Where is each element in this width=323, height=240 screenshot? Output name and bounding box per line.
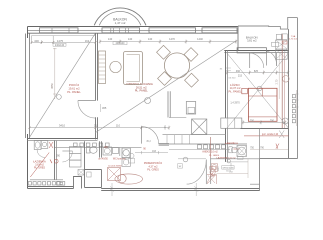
living-corridor door leaf <box>141 127 143 144</box>
svg-text:1475: 1475 <box>57 39 64 43</box>
dim line bedroom bottom <box>243 121 285 123</box>
red line below bedroom <box>244 135 289 137</box>
bedroom north wall double <box>224 50 288 52</box>
hatched box near vestibule <box>78 170 84 176</box>
svg-text:365: 365 <box>102 106 107 110</box>
shaft fixtures stack <box>276 34 281 39</box>
svg-text:1103: 1103 <box>218 166 220 171</box>
washer stack <box>70 147 82 154</box>
window box center under arc <box>102 28 140 33</box>
pokoj diagonal <box>30 34 95 137</box>
left wall window band outer <box>25 34 27 139</box>
top-right balcony stepped outline <box>238 17 297 29</box>
svg-text:3,81 m2: 3,81 m2 <box>247 39 257 43</box>
corner arc fixture <box>37 150 45 158</box>
balcony door leaf A <box>249 53 251 68</box>
small round table <box>110 61 121 72</box>
window box right <box>149 28 196 33</box>
bedroom badge <box>257 86 262 91</box>
dryer box below <box>122 158 130 166</box>
kitchen top line <box>169 117 186 119</box>
left wall window band inner <box>29 34 31 139</box>
corridor inner line <box>178 159 248 167</box>
svg-text:140: 140 <box>108 37 113 41</box>
utility dim line <box>227 72 288 74</box>
bathroom2 shower <box>237 146 247 157</box>
toilet wc <box>86 147 90 153</box>
balcony arc top center outer <box>94 8 146 25</box>
chair NE <box>184 48 198 62</box>
bathroom inner bottom line <box>30 179 63 181</box>
living-corridor door arc <box>142 127 159 144</box>
bed double <box>248 88 277 121</box>
chair NW <box>157 45 171 59</box>
svg-text:PŁ. GRES: PŁ. GRES <box>147 169 159 172</box>
kitchen wall line <box>159 143 247 145</box>
right inner wall x288.6 <box>288 29 290 158</box>
bathroom2 north wall stub <box>211 158 260 160</box>
right squares column <box>292 95 295 123</box>
svg-text:825: 825 <box>254 70 259 73</box>
wc room walls <box>84 141 86 169</box>
red arrow mark <box>279 130 284 138</box>
svg-text:PŁ. PANEL: PŁ. PANEL <box>67 90 81 94</box>
corridor badge <box>183 157 188 162</box>
svg-text:45,2: 45,2 <box>146 141 151 143</box>
top wall outer line <box>28 26 239 28</box>
svg-text:3650: 3650 <box>51 83 54 89</box>
svg-text:um 40/50: um 40/50 <box>98 159 108 161</box>
svg-text:790: 790 <box>270 119 275 122</box>
svg-text:ŁAZIENKA 4,15 m2: ŁAZIENKA 4,15 m2 <box>217 156 237 159</box>
bathroom2 toilet lower <box>210 167 216 170</box>
svg-text:7,5A: 7,5A <box>291 35 296 38</box>
left outer wall bottom segment <box>27 134 29 189</box>
dim tick slashes <box>28 40 289 128</box>
bathroom2 dim <box>217 159 249 178</box>
right wall circle 2 <box>282 118 288 124</box>
red marks <box>49 142 53 148</box>
wall living/bedroom x226 <box>225 51 227 162</box>
pokoj right wall lower <box>96 117 98 139</box>
bathroom red diagonal <box>30 153 49 178</box>
svg-text:215: 215 <box>238 74 243 77</box>
bottom wall main <box>101 189 260 191</box>
corridor dim line <box>135 151 168 154</box>
bathroom radiator squares <box>28 182 60 185</box>
svg-text:1,47 m2: 1,47 m2 <box>115 21 126 25</box>
right outer wall <box>297 18 299 159</box>
dim marks right edge <box>296 94 299 107</box>
svg-text:2,70: 2,70 <box>276 79 279 84</box>
balcony door arc B <box>266 51 276 65</box>
svg-text:3410: 3410 <box>59 124 66 128</box>
corridor top line <box>55 147 142 149</box>
svg-text:brodzik 90/90: brodzik 90/90 <box>225 142 239 145</box>
svg-text:400: 400 <box>34 39 39 43</box>
kitchen squares row <box>198 145 226 149</box>
entry door arc <box>187 160 207 185</box>
dim 365 near pokoj wall <box>100 104 102 112</box>
svg-text:POKÓJ: POKÓJ <box>69 82 80 87</box>
sofa <box>124 52 143 85</box>
dining table round <box>164 53 189 78</box>
bedroom diagonals <box>227 53 289 128</box>
kitchen counter band <box>163 134 227 136</box>
svg-text:PŁ. PANEL: PŁ. PANEL <box>135 88 148 92</box>
chair SE <box>185 73 199 87</box>
radiator squares corridor <box>74 143 110 147</box>
svg-text:poz. szafa 2,10: poz. szafa 2,10 <box>262 133 279 136</box>
bathroom right wall <box>54 141 56 180</box>
bathroom2 toilet <box>229 147 232 153</box>
kitchen box right <box>221 118 242 128</box>
dim line top center-right <box>100 41 236 43</box>
balcony small box <box>272 42 279 46</box>
svg-text:460: 460 <box>236 70 241 73</box>
wardrobe on wall <box>99 51 106 84</box>
bedroom bottom wall <box>241 128 289 130</box>
svg-text:203: 203 <box>164 125 167 130</box>
small box wc <box>113 148 119 154</box>
bedroom north window <box>237 48 266 53</box>
svg-text:240x140: 240x140 <box>116 43 126 45</box>
top wall window band line2 <box>28 32 239 34</box>
axis marker left <box>110 183 114 196</box>
pokoj bottom wall <box>28 138 98 140</box>
svg-text:140: 140 <box>148 37 153 41</box>
balcony door leaf B <box>265 51 267 65</box>
living room diagonal up <box>95 41 236 133</box>
kitchen sink box with X <box>192 119 207 135</box>
right edge vertical dim <box>296 90 298 126</box>
bottom right inner step line <box>250 183 260 185</box>
cabinet in vestibule <box>87 172 91 177</box>
washbasin wc <box>103 147 112 155</box>
nightstand <box>242 88 248 94</box>
svg-text:1,74 m2: 1,74 m2 <box>289 39 298 41</box>
wc badge <box>129 153 134 158</box>
oval rug <box>115 174 143 184</box>
bathroom door arc <box>62 151 72 162</box>
vestibule block <box>82 170 102 189</box>
svg-text:1,4 2970: 1,4 2970 <box>230 102 240 105</box>
svg-text:PŁ. GRES: PŁ. GRES <box>34 166 45 169</box>
red tick <box>50 160 52 164</box>
svg-text:WC: WC <box>104 147 108 149</box>
washbasin <box>34 141 41 150</box>
svg-text:05 310: 05 310 <box>229 78 236 80</box>
axis marker right <box>194 183 198 196</box>
pokoj door leaf <box>78 100 96 102</box>
bottom-left wall bathroom <box>28 187 74 189</box>
corridor top wall right part <box>159 144 169 146</box>
chair SW <box>158 72 172 86</box>
pokoj right wall upper <box>96 34 98 101</box>
svg-text:PŁ. PANEL: PŁ. PANEL <box>229 89 242 93</box>
pokoj door arc <box>78 101 96 119</box>
bathroom2 east wall <box>259 129 261 159</box>
kitchen lower line <box>169 149 230 151</box>
right wall circle <box>283 76 290 83</box>
window mullions center <box>111 28 129 33</box>
bathroom red badge <box>54 159 58 163</box>
dim line top-left <box>31 35 95 37</box>
balcony arc top center inner <box>99 11 141 25</box>
step wall after bathroom <box>74 177 82 189</box>
entry door leaf <box>205 160 207 185</box>
small tab outside <box>57 182 65 186</box>
washing machine box <box>122 148 130 158</box>
pokoj room badge <box>57 95 62 100</box>
top wall window band line1 <box>28 30 239 32</box>
bottom right step <box>260 159 298 191</box>
svg-text:1470: 1470 <box>169 37 175 41</box>
window box left <box>40 28 79 33</box>
svg-text:750: 750 <box>250 119 255 122</box>
balcony door arc A <box>250 53 264 68</box>
svg-text:brodzik 80/80: brodzik 80/80 <box>108 165 122 168</box>
pokoj vertical dim <box>53 48 57 99</box>
shower red box <box>108 168 121 181</box>
window box far right <box>202 28 237 33</box>
SZ180 label box <box>178 164 183 168</box>
left outer wall top segment <box>27 27 29 39</box>
kitchen wall x169 <box>168 91 170 117</box>
svg-text:1440: 1440 <box>197 37 203 41</box>
svg-text:140: 140 <box>128 37 133 41</box>
living room badge <box>145 98 151 104</box>
svg-text:19,61 m2: 19,61 m2 <box>68 86 80 90</box>
bathroom door leaf <box>62 150 72 152</box>
short wall stub <box>276 53 278 66</box>
svg-text:162: 162 <box>85 39 90 43</box>
svg-text:SPRZ.WAN: SPRZ.WAN <box>223 166 234 169</box>
red wall segment <box>210 137 212 159</box>
fridge tall unit <box>186 102 195 115</box>
corner shower arc <box>207 175 217 185</box>
svg-text:ANEKS 2,0 m2: ANEKS 2,0 m2 <box>202 151 218 154</box>
svg-text:240x140: 240x140 <box>55 44 65 47</box>
wc fixture <box>41 141 48 149</box>
balcony divider vertical x238 <box>237 26 239 50</box>
bedroom vertical dim <box>278 53 280 99</box>
entry side wall <box>210 158 212 184</box>
dim line middle across <box>30 127 169 129</box>
bathroom2 washbasin <box>211 164 217 172</box>
shaft wall x284 <box>281 34 283 128</box>
svg-text:110: 110 <box>116 124 121 128</box>
kitchen red fixtures <box>234 148 240 150</box>
